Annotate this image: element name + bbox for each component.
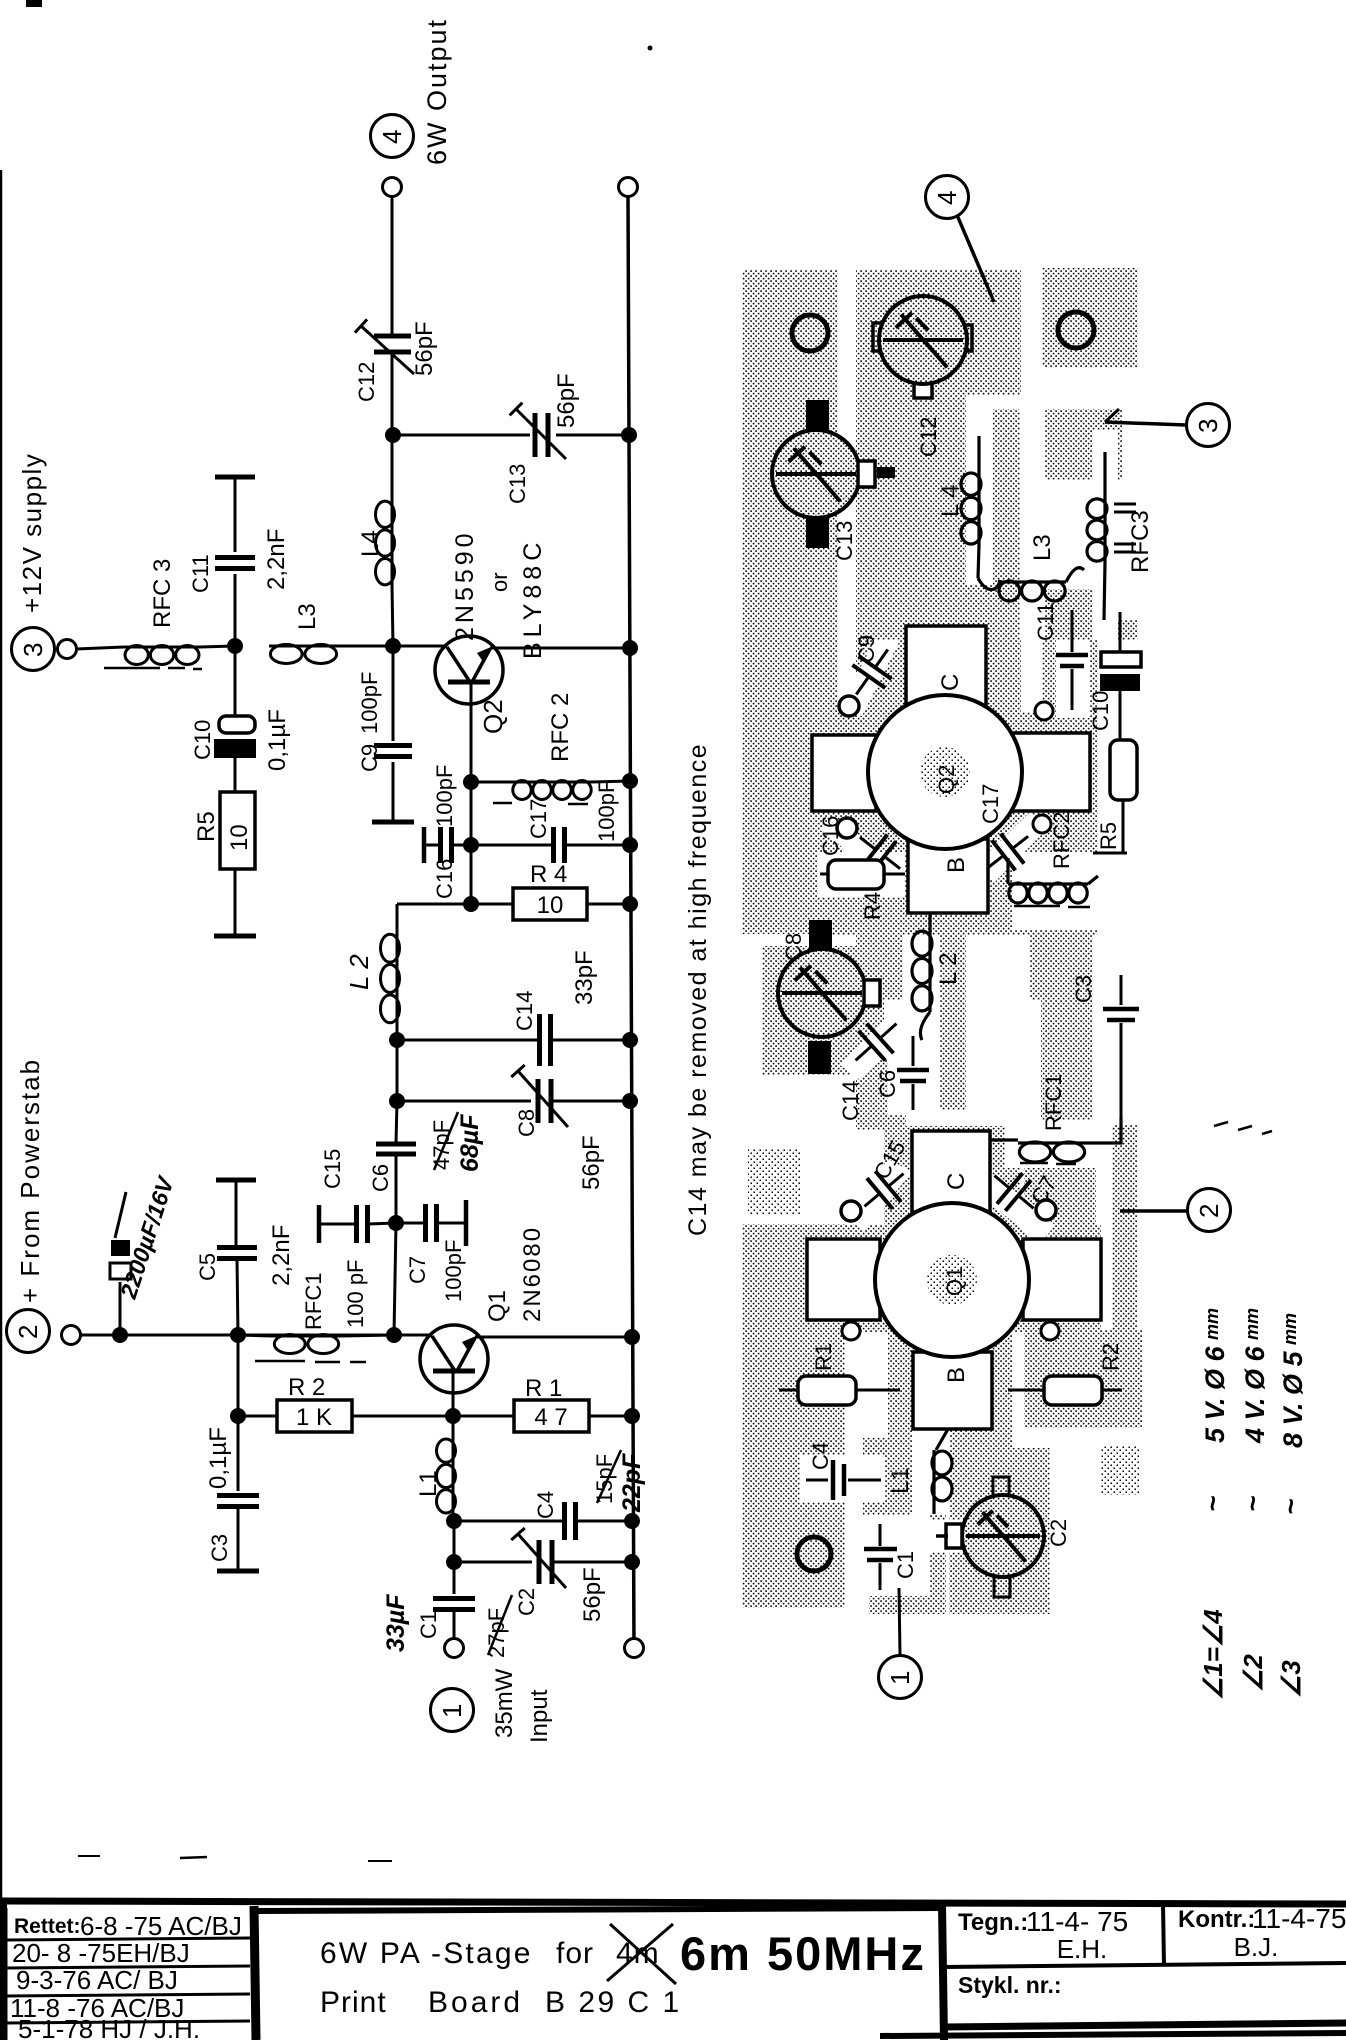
svg-text:E.H.: E.H. xyxy=(1057,1934,1108,1964)
wire base node to L2 xyxy=(397,903,471,906)
svg-text:C: C xyxy=(937,674,964,691)
capacitor C8 (variable) xyxy=(397,1100,538,1103)
svg-text:B: B xyxy=(943,857,970,873)
svg-text:C15: C15 xyxy=(320,1149,345,1189)
svg-text:2: 2 xyxy=(1194,1204,1224,1218)
svg-text:5 V. Ø 6: 5 V. Ø 6 xyxy=(1200,1345,1230,1443)
svg-text:C7: C7 xyxy=(405,1256,430,1284)
svg-text:~: ~ xyxy=(1197,1496,1228,1512)
wire node to ground rail xyxy=(393,434,630,437)
svg-text:15pF: 15pF xyxy=(592,1454,617,1504)
capacitor C1 xyxy=(453,1562,456,1594)
revision table left border xyxy=(5,1908,8,2040)
svg-text:B.J.: B.J. xyxy=(1234,1932,1279,1962)
svg-text:C12: C12 xyxy=(916,417,941,457)
mounting holes xyxy=(792,315,828,351)
stray dot top xyxy=(648,46,653,51)
svg-text:C16: C16 xyxy=(818,816,843,856)
svg-text:5-1-78 HJ / J.H.: 5-1-78 HJ / J.H. xyxy=(18,2014,200,2040)
svg-text:C6: C6 xyxy=(368,1164,393,1192)
svg-text:2,2nF: 2,2nF xyxy=(263,529,290,590)
svg-text:4 7: 4 7 xyxy=(534,1404,567,1431)
svg-text:6W Output: 6W Output xyxy=(422,18,452,165)
capacitor C15 with ground bar xyxy=(317,1205,322,1243)
capacitor C16 to ground bar xyxy=(422,827,427,863)
svg-text:C2: C2 xyxy=(514,1588,539,1616)
wire node to Q2 collector area xyxy=(393,645,447,648)
PCB copper stipple regions xyxy=(742,270,838,934)
svg-text:56pF: 56pF xyxy=(579,1567,606,1622)
svg-text:1 K: 1 K xyxy=(296,1404,332,1431)
svg-text:L3: L3 xyxy=(294,603,321,630)
svg-text:C8: C8 xyxy=(514,1109,539,1137)
inductor L3 xyxy=(269,645,338,648)
svg-text:C8: C8 xyxy=(781,933,806,961)
node C15/C6/C7 xyxy=(388,1215,404,1231)
node C4 xyxy=(446,1513,462,1529)
node Q1 collector xyxy=(386,1327,402,1343)
choke RFC2 xyxy=(471,781,512,784)
transistor Q1 pcb pads xyxy=(807,1239,880,1320)
svg-text:~: ~ xyxy=(1237,1496,1268,1512)
right block mid horizontal line xyxy=(944,1963,1346,1967)
capacitor C9 pcb xyxy=(839,696,859,716)
node C12/C13/L4 xyxy=(385,427,401,443)
capacitor C7 with ground bar xyxy=(396,1222,425,1225)
svg-text:for: for xyxy=(556,1937,594,1970)
trimmer C2 xyxy=(993,1477,1009,1501)
svg-text:100pF: 100pF xyxy=(357,672,382,734)
svg-text:4: 4 xyxy=(377,130,407,144)
choke RFC3 pcb xyxy=(1103,452,1106,498)
svg-text:L1: L1 xyxy=(415,1470,442,1497)
svg-text:C1: C1 xyxy=(416,1611,441,1639)
line to circled 3 xyxy=(1105,422,1186,425)
svg-text:L 2: L 2 xyxy=(935,953,962,985)
white channels cut into copper xyxy=(838,270,856,712)
Q2 base line xyxy=(470,682,473,904)
svg-text:6m 50MHz: 6m 50MHz xyxy=(680,1927,926,1980)
transistor Q2 pcb pads xyxy=(812,735,876,811)
node C14 xyxy=(389,1032,405,1048)
choke RFC3 xyxy=(124,646,200,649)
svg-text:6W PA -Stage: 6W PA -Stage xyxy=(320,1937,533,1970)
capacitor C7 pcb xyxy=(1036,1200,1056,1220)
svg-text:0,1µF: 0,1µF xyxy=(264,709,291,771)
stray marks bottom xyxy=(78,1855,100,1857)
svg-text:R4: R4 xyxy=(860,892,885,920)
svg-text:+12V supply: +12V supply xyxy=(17,453,47,613)
inductor L1 xyxy=(452,1416,455,1438)
terminal 2 circled number xyxy=(7,1310,50,1353)
transistor Q1 pcb body xyxy=(875,1203,1029,1357)
capacitor C12 (variable) xyxy=(374,334,411,339)
inductor L4 pcb xyxy=(977,436,980,472)
circled 3 pointer xyxy=(1187,404,1230,447)
svg-text:R5: R5 xyxy=(1096,822,1121,850)
revision table right thick border xyxy=(254,1906,256,2040)
right block bottom thick line xyxy=(944,2023,1346,2027)
inductor L1 pcb xyxy=(936,1429,948,1450)
svg-text:C9: C9 xyxy=(854,635,879,663)
Q2 collector pad xyxy=(906,626,986,706)
line to circled 1 xyxy=(899,1588,900,1655)
input terminal xyxy=(445,1639,464,1658)
node C16/C17 xyxy=(463,837,479,853)
svg-text:C4: C4 xyxy=(808,1442,833,1470)
capacitor C1 pcb xyxy=(879,1524,882,1546)
svg-text:2N6080: 2N6080 xyxy=(519,1226,546,1322)
svg-text:C10: C10 xyxy=(190,720,215,760)
ground rail xyxy=(628,197,634,1648)
svg-text:RFC1: RFC1 xyxy=(1041,1074,1066,1131)
wire C-node down to Q1 collector node xyxy=(394,1223,396,1335)
rail bottom terminal xyxy=(625,1639,644,1658)
svg-text:9-3-76 AC/ BJ: 9-3-76 AC/ BJ xyxy=(16,1965,178,1995)
svg-text:2: 2 xyxy=(13,1325,43,1339)
capacitor C3 pcb xyxy=(1120,975,1123,1005)
sheet top border of title area xyxy=(0,1901,1346,1904)
resistor R5 pcb xyxy=(1110,740,1137,800)
svg-text:B: B xyxy=(943,1367,970,1383)
capacitor C13 (variable) xyxy=(530,413,556,457)
wire R5 to ground xyxy=(234,869,237,936)
capacitor C17 to rail xyxy=(471,844,553,847)
svg-text:Kontr.:: Kontr.: xyxy=(1178,1906,1255,1933)
svg-text:C2: C2 xyxy=(1046,1519,1071,1547)
revision row line 4 xyxy=(6,2021,250,2023)
svg-text:L4: L4 xyxy=(357,530,384,557)
middle box top line xyxy=(258,1908,941,1911)
wire output to C12 xyxy=(391,197,394,336)
svg-text:100pF: 100pF xyxy=(432,765,457,827)
svg-text:R5: R5 xyxy=(193,811,220,842)
svg-text:R 1: R 1 xyxy=(525,1375,562,1402)
svg-text:L 2: L 2 xyxy=(344,954,374,990)
svg-text:RFC3: RFC3 xyxy=(1127,510,1154,573)
Q1 base line xyxy=(452,1371,455,1416)
capacitor C11 pcb xyxy=(1071,610,1074,652)
choke RFC1 pcb xyxy=(990,1138,1018,1141)
supply terminal xyxy=(58,640,77,659)
resistor R4 xyxy=(471,903,513,906)
svg-text:Print: Print xyxy=(320,1986,387,2019)
svg-text:+ From Powerstab: + From Powerstab xyxy=(15,1058,45,1303)
svg-text:BLY88C: BLY88C xyxy=(519,538,547,659)
svg-text:RFC2: RFC2 xyxy=(1049,812,1074,869)
svg-text:mm: mm xyxy=(1242,1308,1262,1340)
inductor L4 xyxy=(391,435,394,500)
node C8 xyxy=(389,1093,405,1109)
svg-text:2,2nF: 2,2nF xyxy=(268,1225,295,1286)
resistor R2 xyxy=(238,1415,277,1418)
resistor R2 pcb xyxy=(1008,1389,1046,1392)
terminal 3 circled number xyxy=(12,628,55,671)
choke RFC1 xyxy=(238,1335,273,1336)
right block left border xyxy=(942,1905,944,2040)
svg-text:C1: C1 xyxy=(893,1551,918,1579)
transistor Q2 xyxy=(435,636,503,704)
svg-text:R2: R2 xyxy=(1098,1343,1123,1371)
trimmer C8 xyxy=(809,920,832,949)
transistor Q2 pcb body xyxy=(868,695,1022,849)
capacitor C4 xyxy=(454,1520,563,1523)
capacitor C10 (electrolytic) xyxy=(234,646,237,716)
svg-text:C14 may be removed at high fre: C14 may be removed at high frequence xyxy=(684,743,712,1236)
ground rail terminal xyxy=(619,178,638,197)
svg-text:C3: C3 xyxy=(207,1534,232,1562)
output terminal xyxy=(383,178,402,197)
svg-text:2N5590: 2N5590 xyxy=(451,529,479,641)
svg-text:C14: C14 xyxy=(512,991,537,1031)
svg-text:R 4: R 4 xyxy=(530,861,567,888)
svg-text:1: 1 xyxy=(885,1671,915,1685)
svg-text:Q1: Q1 xyxy=(484,1290,511,1322)
wire RFC3 to node xyxy=(200,646,235,647)
svg-text:56pF: 56pF xyxy=(578,1135,605,1190)
capacitor C6 pcb xyxy=(912,1036,915,1066)
inductor L2 xyxy=(396,904,399,933)
svg-text:mm: mm xyxy=(1202,1308,1222,1340)
svg-text:11-4- 75: 11-4- 75 xyxy=(1026,1906,1128,1937)
svg-text:22pF: 22pF xyxy=(618,1453,646,1513)
svg-text:6-8 -75 AC/BJ: 6-8 -75 AC/BJ xyxy=(80,1911,242,1941)
Q1 collector pad xyxy=(912,1131,990,1212)
capacitor C2 (variable) xyxy=(454,1561,532,1564)
capacitor C15 pcb xyxy=(841,1201,861,1221)
resistor R4 pcb xyxy=(820,873,830,876)
svg-text:∠2: ∠2 xyxy=(1238,1654,1268,1692)
svg-text:100pF: 100pF xyxy=(441,1240,466,1302)
resistor R1 xyxy=(453,1415,514,1418)
stray dashes right margin xyxy=(1214,1122,1228,1126)
svg-text:C17: C17 xyxy=(526,799,551,839)
svg-text:R1: R1 xyxy=(811,1343,836,1371)
node R4/L2 xyxy=(463,896,479,912)
capacitor C16 pcb xyxy=(837,818,857,838)
svg-text:4: 4 xyxy=(932,191,962,205)
svg-text:RFC1: RFC1 xyxy=(301,1273,326,1330)
circled 1 pointer xyxy=(879,1656,922,1699)
svg-text:1: 1 xyxy=(437,1704,467,1718)
choke RFC2 pcb xyxy=(1006,858,1009,884)
capacitor C5 xyxy=(216,1178,256,1183)
svg-text:Q1: Q1 xyxy=(942,1267,967,1296)
inductor L3 pcb xyxy=(978,578,1000,590)
svg-text:0,1µF: 0,1µF xyxy=(205,1427,232,1489)
capacitor C17 pcb xyxy=(1033,815,1051,833)
node C11/C10 junction xyxy=(227,638,243,654)
wire terminal to RFC3 xyxy=(76,647,124,649)
svg-text:C13: C13 xyxy=(832,521,857,561)
svg-text:Input: Input xyxy=(526,1689,553,1743)
svg-text:RFC 2: RFC 2 xyxy=(547,693,574,762)
svg-text:C3: C3 xyxy=(1071,975,1096,1003)
node R2 left xyxy=(230,1408,246,1424)
terminal 4 circled number xyxy=(371,115,414,158)
thick left sheet edge bottom xyxy=(0,1898,7,2040)
capacitor C3 to ground xyxy=(237,1416,240,1491)
svg-text:Tegn.:: Tegn.: xyxy=(958,1909,1028,1936)
svg-text:35mW: 35mW xyxy=(491,1668,518,1738)
svg-text:L1: L1 xyxy=(887,1467,914,1494)
svg-text:Q2: Q2 xyxy=(934,765,959,794)
svg-text:RFC 3: RFC 3 xyxy=(149,559,176,628)
node C5 xyxy=(230,1327,246,1343)
svg-text:∠1=∠4: ∠1=∠4 xyxy=(1198,1609,1228,1700)
svg-text:Rettet:: Rettet: xyxy=(14,1915,81,1938)
svg-text:C11: C11 xyxy=(188,554,213,593)
wire L3 to node xyxy=(338,645,393,648)
svg-text:L 4: L 4 xyxy=(937,485,964,517)
capacitor C10 pcb (electrolytic) xyxy=(1119,612,1122,652)
node R2/R1/L1 xyxy=(445,1408,461,1424)
revision row line 3 xyxy=(6,1994,250,1996)
wire Q1 emitter to rail xyxy=(475,1336,632,1339)
wire Q2 emitter to rail xyxy=(490,647,630,650)
svg-text:3: 3 xyxy=(18,643,48,657)
wire to Q1 xyxy=(394,1334,432,1337)
svg-text:C: C xyxy=(943,1173,970,1190)
svg-text:or: or xyxy=(487,572,512,592)
circled 2 pointer xyxy=(1188,1189,1231,1232)
node 2200uF xyxy=(112,1327,128,1343)
svg-text:C5: C5 xyxy=(195,1253,220,1281)
trimmer C12 xyxy=(873,323,891,351)
svg-text:47pF: 47pF xyxy=(429,1120,454,1170)
electrolytic 2200uF/16V xyxy=(119,1282,122,1335)
RFC3 core dashes xyxy=(104,667,160,670)
svg-text:L3: L3 xyxy=(1029,534,1056,561)
revision row line 1 xyxy=(6,1938,250,1940)
svg-text:3: 3 xyxy=(1193,419,1223,433)
svg-text:33pF: 33pF xyxy=(571,950,598,1005)
svg-text:100pF: 100pF xyxy=(594,780,619,842)
svg-text:~: ~ xyxy=(1275,1499,1306,1515)
svg-text:11-4-75: 11-4-75 xyxy=(1252,1903,1346,1934)
svg-text:Board: Board xyxy=(428,1986,523,2019)
circled 4 pointer xyxy=(926,176,969,219)
svg-text:C14: C14 xyxy=(838,1081,863,1121)
svg-text:4 V. Ø 6: 4 V. Ø 6 xyxy=(1240,1345,1270,1444)
svg-text:∠3: ∠3 xyxy=(1276,1660,1306,1698)
svg-text:8 V. Ø 5: 8 V. Ø 5 xyxy=(1278,1350,1308,1448)
svg-text:B 29 C 1: B 29 C 1 xyxy=(545,1986,682,2019)
capacitor C14 xyxy=(397,1039,538,1042)
right block inner vertical divider xyxy=(1163,1904,1164,1966)
svg-text:C12: C12 xyxy=(354,362,379,402)
transistor Q1 xyxy=(420,1325,488,1393)
resistor R1 pcb xyxy=(779,1389,800,1392)
svg-text:C4: C4 xyxy=(533,1491,558,1519)
cross over 4m xyxy=(607,1924,673,1981)
svg-text:Q2: Q2 xyxy=(478,699,508,734)
svg-text:C16: C16 xyxy=(432,859,457,899)
svg-text:C17: C17 xyxy=(978,784,1003,824)
left sheet edge line xyxy=(0,170,2,2040)
inductor L2 pcb xyxy=(928,913,931,930)
capacitor C9 to ground xyxy=(392,646,395,741)
svg-text:68µF: 68µF xyxy=(456,1114,484,1172)
svg-text:C6: C6 xyxy=(875,1070,900,1098)
capacitor C6 xyxy=(396,1101,397,1143)
supply wire 2 xyxy=(80,1334,394,1337)
svg-text:56pF: 56pF xyxy=(411,321,438,376)
svg-text:C9: C9 xyxy=(357,744,382,772)
node L4/C9/Q2 supply xyxy=(385,638,401,654)
capacitor C11 xyxy=(215,475,255,480)
svg-text:20- 8 -75EH/BJ: 20- 8 -75EH/BJ xyxy=(12,1938,190,1968)
svg-text:C11: C11 xyxy=(1033,602,1058,641)
svg-text:10: 10 xyxy=(537,892,564,919)
svg-text:C13: C13 xyxy=(505,464,530,504)
node RFC2 xyxy=(463,774,479,790)
terminal 1 circled number xyxy=(431,1689,474,1732)
svg-text:C10: C10 xyxy=(1088,691,1113,731)
powerstab terminal xyxy=(62,1326,81,1345)
capacitor C4 pcb xyxy=(806,1479,828,1482)
capacitor C14 pcb xyxy=(859,1031,886,1061)
svg-text:56pF: 56pF xyxy=(553,373,580,428)
resistor R5 xyxy=(220,792,255,869)
line to circled 2 xyxy=(1120,1209,1187,1213)
revision row line 2 xyxy=(6,1966,250,1968)
node C2 xyxy=(446,1554,462,1570)
svg-text:33µF: 33µF xyxy=(382,1594,410,1652)
svg-text:Stykl. nr.:: Stykl. nr.: xyxy=(958,1972,1062,1998)
svg-text:mm: mm xyxy=(1280,1313,1300,1345)
partial lower line xyxy=(880,2033,1346,2036)
svg-text:R 2: R 2 xyxy=(288,1374,325,1401)
svg-text:100 pF: 100 pF xyxy=(343,1260,368,1329)
svg-text:10: 10 xyxy=(226,824,253,851)
trimmer C13 xyxy=(806,400,829,434)
